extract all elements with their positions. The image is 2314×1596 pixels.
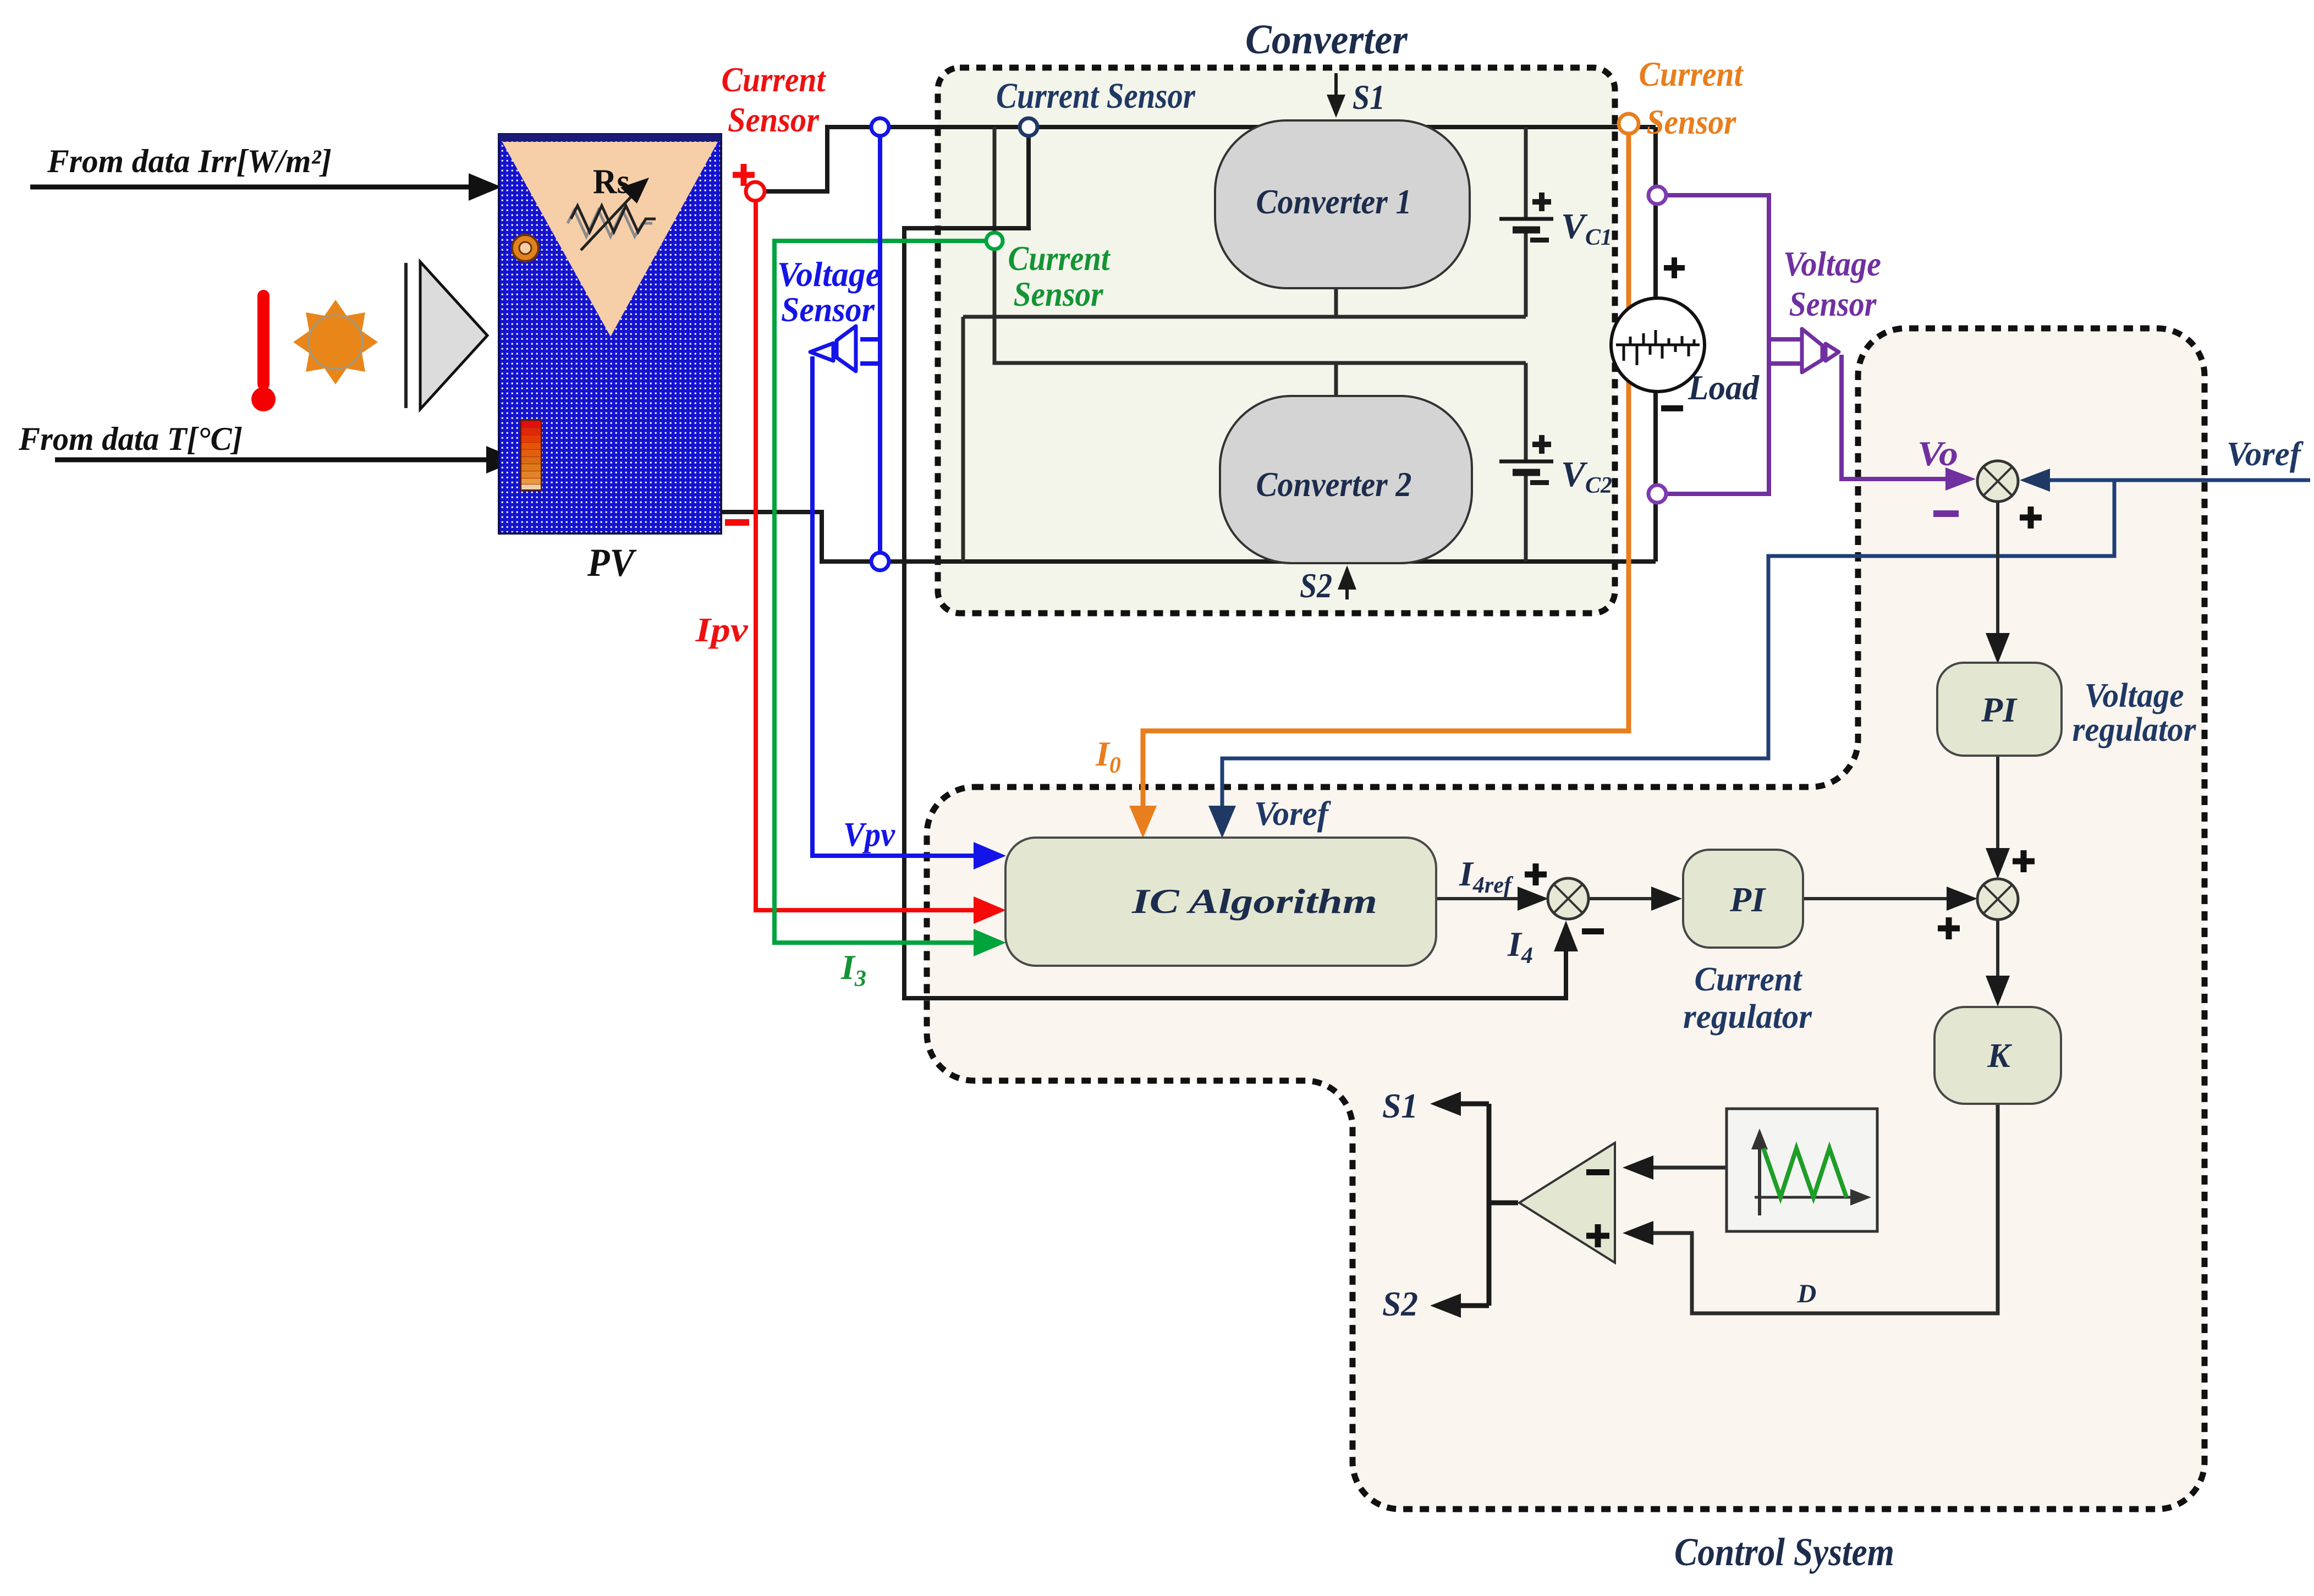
svg-text:Converter 1: Converter 1 — [1256, 182, 1412, 221]
svg-text:regulator: regulator — [1683, 998, 1812, 1036]
svg-text:Current: Current — [722, 60, 827, 99]
node: blue current sensor top — [871, 118, 889, 136]
battery Vc2 — [1499, 435, 1553, 485]
PI current regulator block — [1683, 850, 1803, 948]
sawtooth generator box — [1727, 1109, 1877, 1231]
wire: top bus from PV+ to load corner — [765, 127, 1656, 191]
PV panel — [499, 134, 721, 533]
svg-text:S2: S2 — [1300, 566, 1332, 605]
wire: battery Vc2 verticals — [1524, 363, 1528, 562]
svg-text:From data T[°C]: From data T[°C] — [18, 421, 243, 457]
wire: orange I0 from node down to IC Algorithm — [1143, 132, 1629, 823]
svg-text:S2: S2 — [1382, 1284, 1418, 1323]
wire: red Ipv from PV+ down to IC Algorithm — [756, 202, 990, 910]
wire: S1 gate arrow into converter1 — [1327, 73, 1345, 118]
PV plus terminal node (red) — [746, 182, 765, 201]
wire: comparator output rail to S1 S2 — [1440, 1104, 1518, 1306]
wire: navy Voref horizontal into Vo junction — [2026, 478, 2310, 482]
svg-text:Current: Current — [1695, 961, 1803, 998]
IC Algorithm block — [1005, 838, 1436, 966]
svg-text:Converter 2: Converter 2 — [1256, 465, 1412, 504]
load source circle — [1611, 298, 1705, 392]
wire: IC Algorithm to I4 junction — [1436, 887, 1548, 911]
play triangle icon — [406, 262, 487, 409]
node: blue bottom — [871, 553, 889, 570]
thermometer icon — [251, 290, 276, 411]
label: plus top right of sum2 — [2013, 850, 2035, 872]
label: plus at Vo junction — [2020, 507, 2042, 529]
wire: purple Vo to junction — [1842, 355, 1966, 479]
load minus sign — [1661, 405, 1683, 411]
node: purple bottom — [1648, 485, 1666, 503]
svg-text:Voltage: Voltage — [777, 255, 881, 294]
wire: PI voltage regulator to sum2 — [1986, 756, 2010, 879]
I4 summing junction — [1548, 878, 1589, 919]
svg-text:Rs: Rs — [593, 162, 630, 201]
svg-text:Sensor: Sensor — [1789, 284, 1877, 323]
load plus sign — [1664, 257, 1685, 278]
wire: PI current regulator to sum2 — [1803, 887, 1977, 911]
label: plus at I4 junction — [1525, 863, 1547, 885]
converter dashed box — [938, 68, 1615, 613]
svg-text:Vpv: Vpv — [843, 816, 895, 854]
comparator triangle — [1519, 1143, 1615, 1263]
wire: Vc1 bottom rail y=576 — [963, 315, 1526, 319]
Vo summing junction — [1977, 461, 2018, 502]
svg-text:PI: PI — [1729, 880, 1766, 919]
comparator plus — [1586, 1224, 1609, 1247]
battery Vc1 — [1499, 192, 1553, 243]
comparator minus — [1586, 1169, 1609, 1175]
wire: blue vertical from top node to bottom node with sensor tails — [860, 135, 880, 554]
svg-text:Voltage: Voltage — [1783, 244, 1881, 283]
svg-text:Control System: Control System — [1674, 1530, 1894, 1574]
label: minus at I4 junction — [1582, 928, 1604, 934]
converter 1 block — [1215, 120, 1470, 288]
wire: vertical 1751 from y576 to bottom bus — [961, 317, 965, 562]
red minus sign — [725, 519, 749, 526]
wire: purple voltage sensor rails on load — [1667, 195, 1802, 494]
svg-text:D: D — [1797, 1279, 1817, 1308]
wire: I4 feedback from navy node to summing junction — [904, 127, 1566, 998]
wire: sum2 to K — [1986, 920, 2010, 1006]
wire: green I3 from green node to IC Algorithm — [774, 241, 990, 943]
voltage sensor horn (blue) — [810, 326, 856, 371]
PI voltage regulator block — [1937, 663, 2062, 756]
svg-text:Current: Current — [1639, 54, 1744, 93]
svg-text:Voref: Voref — [2227, 436, 2304, 473]
svg-text:Current: Current — [1008, 239, 1111, 278]
svg-text:Voref: Voref — [1254, 795, 1331, 833]
wire: K output D line to comparator plus input — [1631, 1104, 1998, 1313]
node: green current sensor — [986, 233, 1003, 249]
wire: From data Irr arrow — [30, 173, 502, 201]
svg-text:PV: PV — [587, 541, 637, 585]
svg-text:Sensor: Sensor — [728, 100, 820, 139]
wire: From data T arrow — [55, 446, 519, 474]
svg-text:Voltage: Voltage — [2085, 677, 2184, 714]
wire: load branch vertical — [1653, 127, 1658, 562]
svg-text:Sensor: Sensor — [781, 290, 875, 329]
voltage sensor horn (purple) — [1802, 329, 1839, 372]
svg-text:Load: Load — [1688, 368, 1760, 407]
converter 2 block — [1220, 396, 1472, 563]
PV Rs potentiometer zigzag — [568, 210, 652, 236]
wire: I4 junction to PI current regulator — [1589, 887, 1682, 911]
K block — [1934, 1007, 2061, 1104]
wire: battery Vc1 verticals — [1524, 127, 1528, 317]
control system dashed outline — [927, 328, 2205, 1509]
svg-text:PI: PI — [1981, 690, 2018, 729]
wire: navy Voref branch down to IC Algorithm — [1222, 480, 2114, 823]
svg-text:Converter: Converter — [1245, 16, 1408, 63]
svg-text:Ipv: Ipv — [695, 612, 749, 649]
wire: converter1 bottom stub — [1334, 286, 1338, 317]
label: plus bottom left of sum2 — [1938, 917, 1960, 939]
svg-text:S1: S1 — [1382, 1086, 1418, 1125]
PV orange grommet — [512, 235, 538, 261]
PV heater stripes — [521, 420, 541, 490]
svg-text:Vo: Vo — [1917, 434, 1958, 473]
label: purple minus at Vo junction — [1933, 510, 1959, 517]
wire: Vo junction to PI voltage regulator — [1986, 502, 2010, 664]
svg-text:Sensor: Sensor — [1014, 274, 1104, 313]
svg-text:regulator: regulator — [2073, 711, 2197, 749]
wire: sawtooth to comparator minus input — [1631, 1166, 1727, 1170]
wire: S2 gate arrow into converter2 — [1338, 565, 1356, 599]
sun icon — [293, 300, 378, 384]
svg-text:S1: S1 — [1353, 78, 1385, 117]
PV Rs arrow — [581, 178, 649, 250]
wire: blue Vpv from voltage sensor tip to IC Algorithm — [812, 356, 990, 856]
svg-text:Sensor: Sensor — [1647, 102, 1737, 141]
sum2 junction — [1977, 879, 2018, 920]
node: purple top — [1648, 186, 1666, 204]
node: navy current sensor — [1020, 118, 1037, 136]
svg-text:From data Irr[W/m²]: From data Irr[W/m²] — [47, 143, 332, 179]
node: orange current sensor — [1619, 114, 1639, 134]
svg-text:K: K — [1987, 1037, 2012, 1075]
red plus sign — [733, 164, 755, 186]
wire: bottom bus from PV- to load — [721, 512, 1656, 562]
svg-text:IC Algorithm: IC Algorithm — [1131, 882, 1377, 921]
svg-text:Current Sensor: Current Sensor — [996, 76, 1196, 116]
wire: branch x=1808 (green sensor drop) and Conv2 top rail — [994, 127, 1526, 363]
wire: converter2 top stub — [1334, 363, 1338, 397]
